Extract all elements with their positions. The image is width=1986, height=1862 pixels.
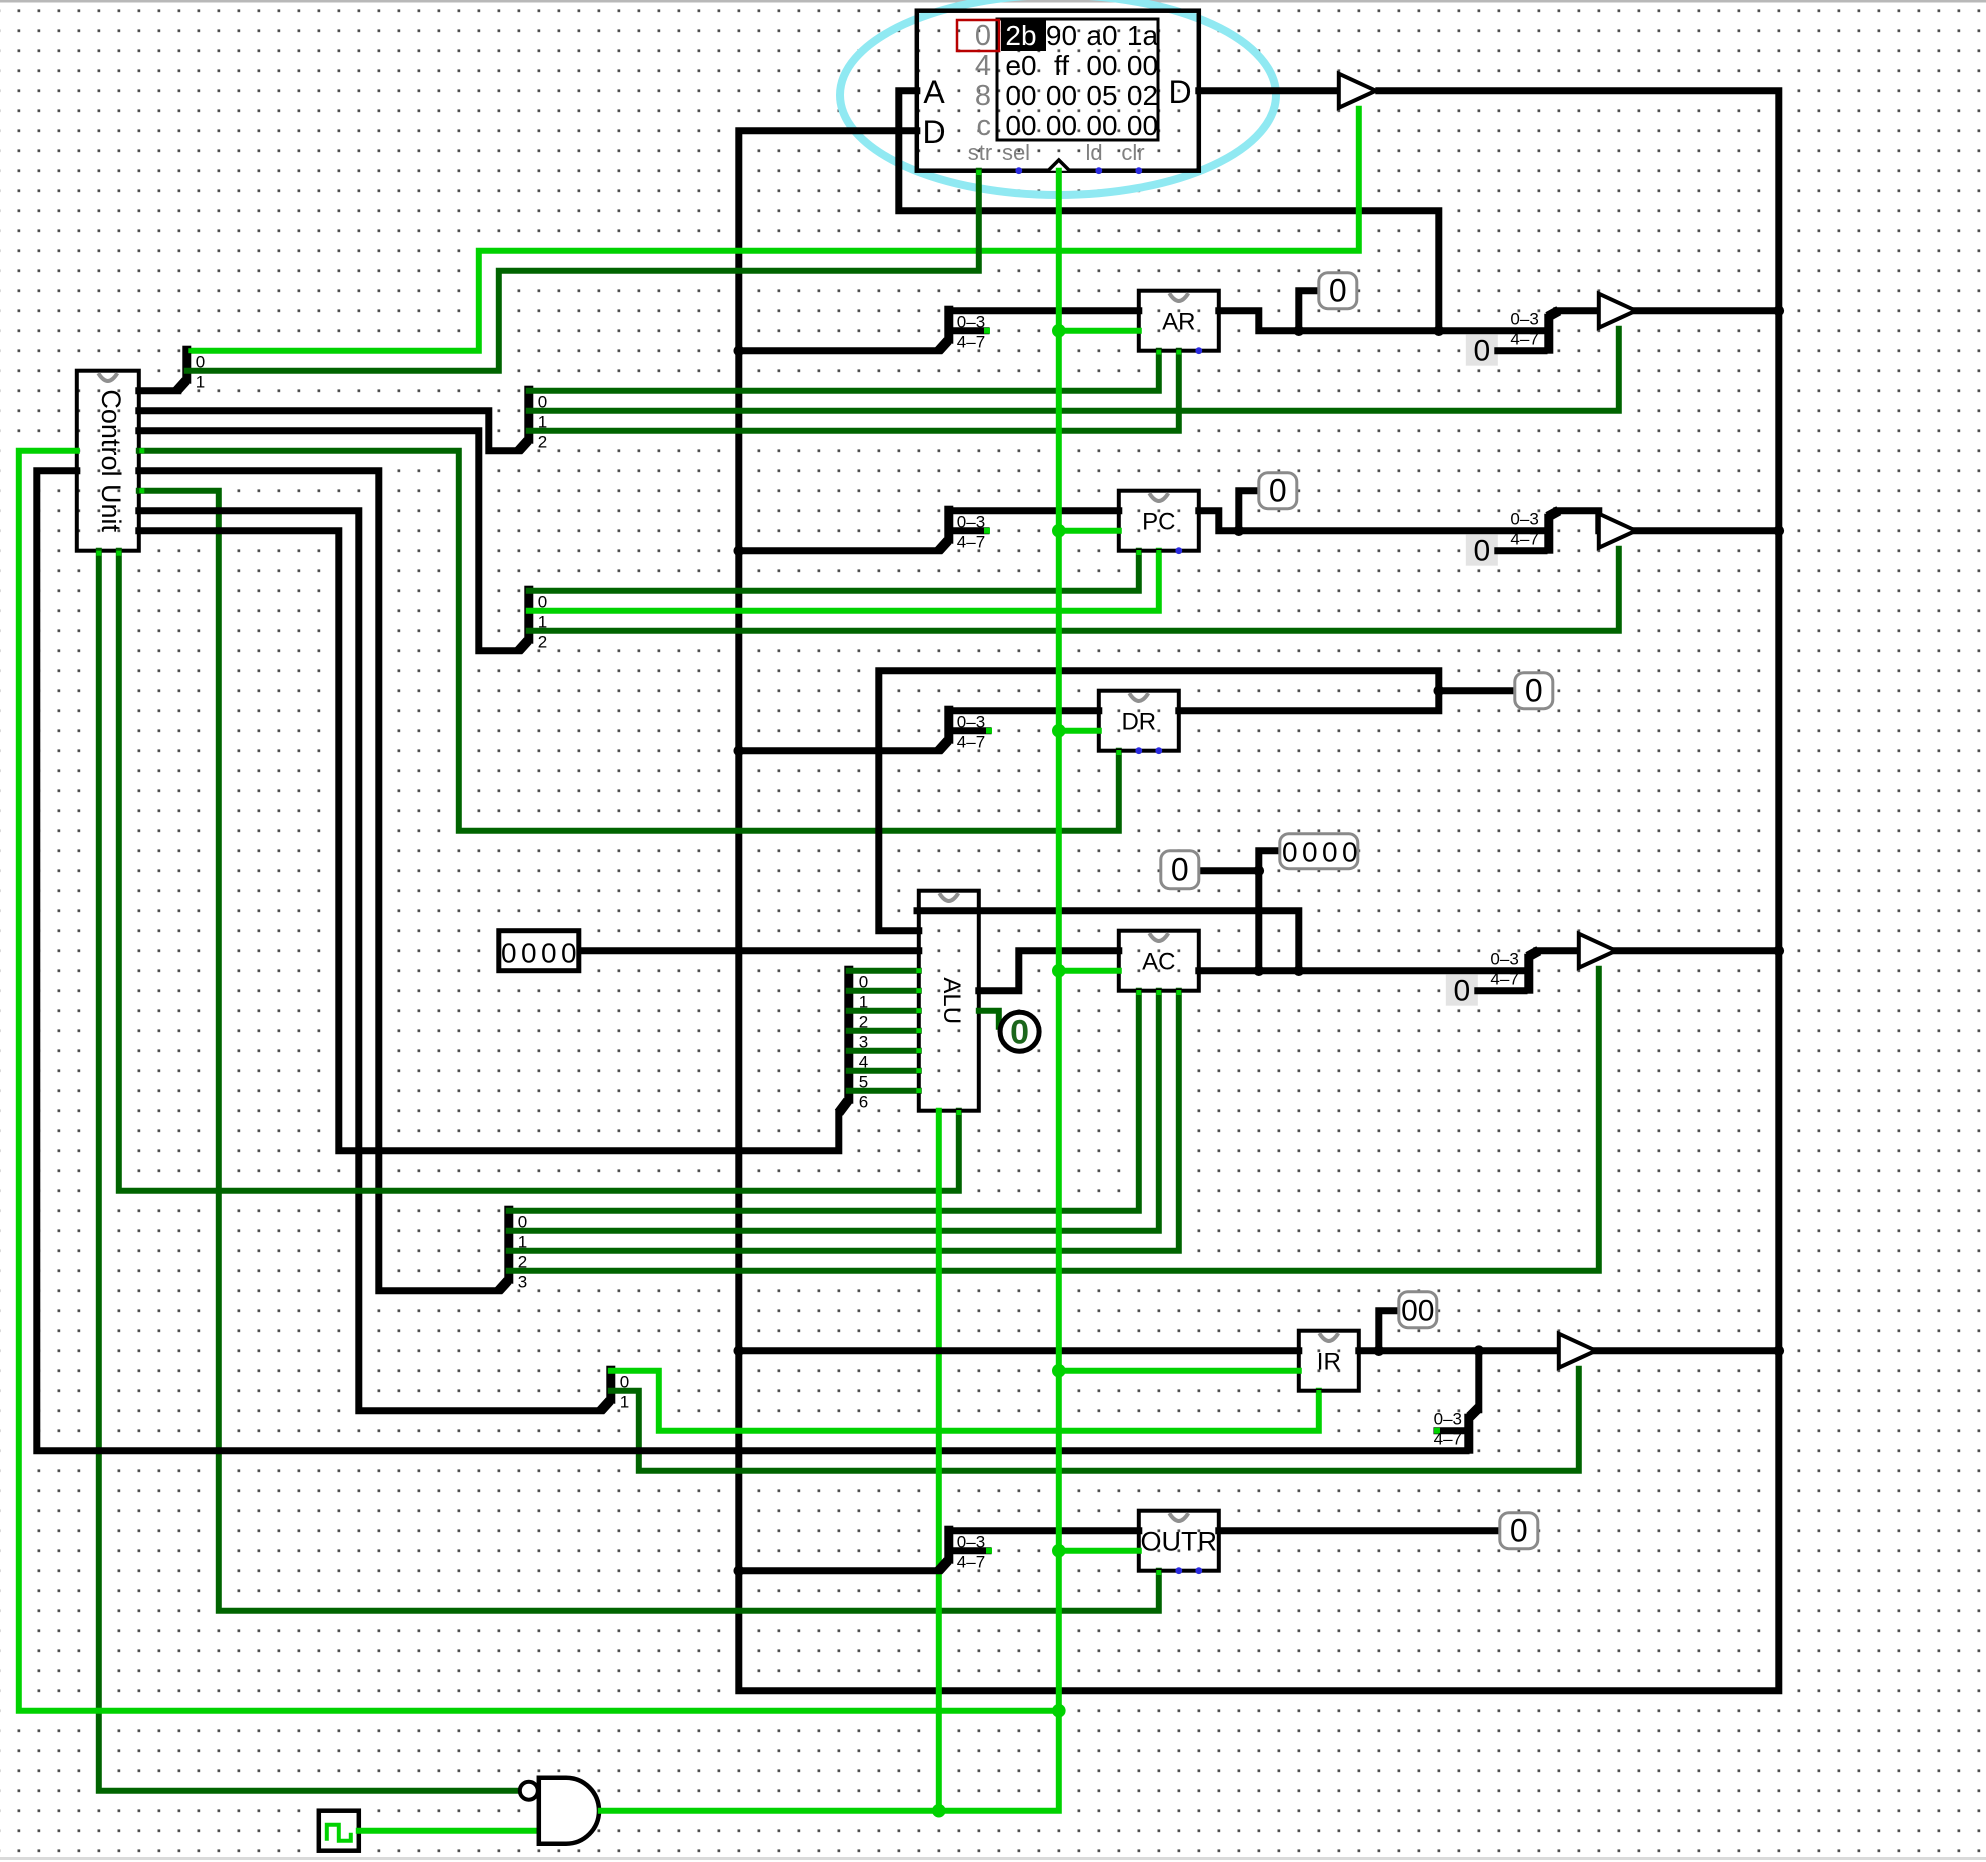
svg-text:0: 0 [1510, 1513, 1528, 1549]
junction IR splitter tee [1474, 1345, 1485, 1356]
OUTR inr pin (floating) [1175, 1567, 1182, 1574]
svg-text:0–3: 0–3 [957, 1533, 985, 1552]
wire AC ld (0) [509, 991, 1139, 1211]
svg-text:00: 00 [1127, 50, 1158, 81]
pin AC value 0 0 0 0 [1280, 834, 1358, 869]
wire OUTR splitter stem [739, 1567, 939, 1574]
NAND gate (AND with inverted input) [520, 1778, 599, 1844]
wire DR out to pin [1439, 687, 1515, 694]
wire ALU result to AC [979, 951, 1119, 991]
wire IR output [1359, 1347, 1559, 1354]
junction clock ALU [932, 1804, 946, 1818]
junction AR out to RAM A [1434, 325, 1445, 336]
junction AC clock [1052, 964, 1066, 978]
svg-text:e0: e0 [1005, 50, 1036, 81]
wire AR inr (0) [529, 351, 1179, 431]
alu U2 [919, 891, 979, 1111]
svg-text:4: 4 [975, 50, 991, 82]
svg-text:00: 00 [1127, 110, 1158, 141]
splitter S3 (3-bit PC ctl) [519, 586, 547, 652]
wire AR buffer enable (0) [529, 329, 1619, 411]
register AC [1119, 931, 1199, 991]
wire ALU ctl bit2 (0) [849, 1008, 919, 1014]
DR clr pin (floating) [1155, 747, 1162, 754]
svg-text:2: 2 [538, 433, 547, 452]
svg-text:00: 00 [1086, 110, 1117, 141]
junction OUTR stem bus [734, 1565, 745, 1576]
wire PC buffer out [1636, 527, 1779, 534]
svg-text:0: 0 [975, 20, 991, 52]
junction PC out pin tee [1234, 525, 1245, 536]
junction AC bus [1774, 945, 1785, 956]
constant 0 for AC high nibble [1446, 975, 1478, 1008]
wire DR D input [949, 707, 1099, 714]
wire AR const to combiner [1498, 347, 1544, 354]
wire CU pin3 to splitter S3 [139, 431, 519, 651]
svg-text:D: D [922, 114, 945, 150]
wire NAND out clock net (1) [601, 171, 1059, 1811]
svg-text:0–3: 0–3 [1510, 510, 1538, 529]
splitter S1 (2-bit RAM ctl) [177, 346, 205, 392]
svg-text:4–7: 4–7 [1510, 530, 1538, 549]
combiner AC [1490, 950, 1538, 994]
svg-text:0–3: 0–3 [957, 713, 985, 732]
pin AR value 0 [1319, 273, 1357, 309]
pin DR value 0 [1515, 673, 1553, 709]
svg-text:clr: clr [1121, 140, 1144, 165]
splitter S4 (4-bit AC ctl) [499, 1206, 527, 1292]
svg-text:0–3: 0–3 [957, 513, 985, 532]
junction IR input bus [734, 1345, 745, 1356]
svg-text:0: 0 [1329, 273, 1347, 309]
wire ALU ctl bit6 (0) [849, 1088, 919, 1094]
svg-text:0: 0 [1322, 837, 1338, 868]
wire ALU ctl bit5 (0) [849, 1068, 919, 1074]
wire AC combiner stem [1537, 947, 1579, 954]
clock component [319, 1811, 359, 1851]
junction AC pin link [1254, 865, 1265, 876]
svg-text:05: 05 [1086, 80, 1117, 111]
svg-text:0: 0 [1171, 852, 1189, 888]
wire CU halt to NAND (0) [99, 551, 517, 1791]
register AR [1139, 291, 1219, 351]
svg-text:DR: DR [1121, 709, 1156, 736]
splitter IR output [1434, 1408, 1479, 1454]
wire CU to ALU flag (0) [119, 551, 959, 1191]
svg-text:1: 1 [620, 1393, 629, 1412]
svg-text:c: c [977, 110, 992, 142]
wire IR ld (1) [611, 1371, 1319, 1431]
svg-text:1a: 1a [1127, 20, 1159, 51]
svg-text:0: 0 [1010, 1014, 1029, 1052]
svg-text:OUTR: OUTR [1141, 1527, 1218, 1557]
wire IR buffer enable (0) [611, 1369, 1579, 1471]
RAM sel pin (floating) [1015, 167, 1022, 174]
junction AC out tee1 [1254, 965, 1265, 976]
svg-text:00: 00 [1046, 80, 1077, 111]
control unit U1 [77, 371, 139, 551]
wire main bus ring (RAM D in, left bus, bottom bus, right bus) [739, 91, 1779, 1691]
wire OUTR D input [949, 1527, 1139, 1534]
wire AC clr (0) [509, 991, 1179, 1251]
svg-text:Control Unit: Control Unit [96, 389, 126, 532]
svg-text:0: 0 [1453, 975, 1470, 1008]
controlled buffer RAM-to-bus [1339, 74, 1376, 108]
splitter DR input [939, 706, 992, 752]
wire IR opcode 4-7 to CU [37, 471, 1466, 1451]
junction AR out pin tee [1294, 325, 1305, 336]
junction IR out pin tee [1374, 1345, 1385, 1356]
svg-text:3: 3 [518, 1273, 527, 1292]
wire CU pin1 to splitter S1 [139, 387, 178, 394]
svg-text:00: 00 [1005, 110, 1036, 141]
svg-text:4–7: 4–7 [957, 533, 985, 552]
wire PC buffer enable (0) [529, 549, 1619, 631]
wire RAM D out to buffer [1199, 87, 1339, 94]
wire OUTR clock tap (1) [1059, 1548, 1139, 1554]
wire ALU ctl bit1 (0) [849, 988, 919, 994]
wire RAM buffer enable (1) [187, 109, 1359, 351]
svg-text:00: 00 [1046, 110, 1077, 141]
svg-text:4–7: 4–7 [957, 733, 985, 752]
wire PC splitter stem [739, 547, 939, 554]
constant 0 for AR high nibble [1466, 335, 1498, 368]
combiner AR [1510, 310, 1558, 354]
RAM ld pin (floating) [1095, 167, 1102, 174]
wire IR D input [739, 1347, 1299, 1354]
svg-text:IR: IR [1317, 1349, 1341, 1376]
junction IR clock [1052, 1364, 1066, 1378]
svg-text:00: 00 [1086, 50, 1117, 81]
splitter S6 (7-bit ALU ctl) [839, 966, 868, 1113]
controlled buffer AR-to-bus [1599, 294, 1636, 328]
wire PC clock tap (1) [1059, 528, 1119, 534]
combiner PC [1510, 510, 1558, 554]
wire S1 leg1 RAM str (0) [187, 171, 979, 371]
wire clock to NAND (1) [359, 1828, 539, 1834]
svg-text:0: 0 [1282, 837, 1298, 868]
svg-text:8: 8 [975, 80, 991, 112]
wire ALU ctl bit0 (0) [849, 968, 919, 974]
pin OUTR value 0 [1500, 1513, 1538, 1549]
wire AC buffer out [1616, 947, 1779, 954]
wire DR output loop to ALU A [879, 671, 1439, 931]
junction AC out tee2 [1294, 965, 1305, 976]
wire AC buffer enable (0) [509, 969, 1599, 1271]
controlled buffer IR-to-bus [1559, 1334, 1596, 1368]
probe carry 0 [1000, 1012, 1039, 1052]
wire IR clock tap (1) [1059, 1368, 1299, 1374]
register OUTR [1139, 1511, 1219, 1571]
splitter S5 (2-bit IR ctl) [601, 1366, 629, 1412]
wire AC out up to 4bit pin [1259, 851, 1280, 971]
svg-text:02: 02 [1127, 80, 1158, 111]
wire AC inr (0) [509, 991, 1159, 1231]
svg-text:a0: a0 [1086, 20, 1117, 51]
svg-text:4–7: 4–7 [957, 333, 985, 352]
svg-text:sel: sel [1002, 140, 1030, 165]
wire PC combiner stem [1557, 511, 1599, 531]
wire PC const to combiner [1498, 547, 1544, 554]
constant 0 for PC high nibble [1466, 535, 1498, 568]
wire DR ld (0) [139, 451, 1119, 831]
wire ALU ctl bit3 (0) [849, 1028, 919, 1034]
splitter OUTR input [939, 1526, 992, 1572]
wire AC output [1199, 967, 1524, 974]
svg-text:0: 0 [501, 938, 517, 969]
junction PC clock [1052, 524, 1066, 538]
svg-text:1: 1 [196, 373, 205, 392]
junction OUTR clock [1052, 1544, 1066, 1558]
controlled buffer AC-to-bus [1579, 934, 1616, 968]
wire OUTR ld (0) [139, 491, 1159, 1611]
pin input 0000 to ALU B [499, 931, 579, 971]
wire DR splitter stem [739, 747, 939, 754]
wire OUTR output [1219, 1527, 1500, 1534]
register DR [1099, 691, 1179, 751]
wire ALU carry to probe (0) [979, 1011, 999, 1027]
wire RAM address loop from AR output [899, 91, 1439, 331]
wire AC pin0 link [1198, 867, 1259, 874]
svg-text:A: A [923, 74, 945, 110]
wire AC const to combiner [1478, 987, 1524, 994]
wire endpoint nubs [96, 170, 1321, 1575]
svg-text:00: 00 [1005, 80, 1036, 111]
wire PC D input [949, 507, 1119, 514]
junction DR clock [1052, 724, 1066, 738]
svg-text:0: 0 [541, 938, 557, 969]
wire AR splitter stem [739, 347, 939, 354]
svg-text:ld: ld [1085, 140, 1102, 165]
splitter AR input [939, 306, 990, 352]
svg-text:2b: 2b [1005, 20, 1036, 51]
svg-text:2: 2 [538, 633, 547, 652]
svg-text:PC: PC [1142, 509, 1175, 536]
register PC [1119, 491, 1199, 551]
wire ALU B input from pin [579, 947, 919, 954]
junction DR out pin tee [1434, 685, 1445, 696]
junction clock CU [1052, 1704, 1066, 1718]
svg-text:D: D [1168, 74, 1191, 110]
svg-text:0: 0 [521, 938, 537, 969]
svg-text:4–7: 4–7 [957, 1553, 985, 1572]
pin PC value 0 [1259, 473, 1297, 509]
wire CU pin7 to splitter S5 [139, 511, 601, 1411]
svg-text:0: 0 [1473, 335, 1490, 368]
controlled buffer PC-to-bus [1599, 514, 1636, 548]
wire CU clock input (1) [19, 451, 1059, 1711]
register IR [1299, 1331, 1359, 1391]
wire ALU ctl bit4 (0) [849, 1048, 919, 1054]
junction PC bus [1774, 525, 1785, 536]
wire AR buffer out [1636, 307, 1779, 314]
wire CU pin2 to splitter S2 [139, 411, 519, 451]
svg-text:AR: AR [1162, 309, 1195, 336]
svg-text:90: 90 [1046, 20, 1077, 51]
RAM clr pin (floating) [1135, 167, 1142, 174]
wire IR buffer out [1596, 1347, 1779, 1354]
svg-text:0: 0 [561, 938, 577, 969]
wire DR clock tap (1) [1059, 728, 1099, 734]
svg-text:6: 6 [859, 1093, 868, 1112]
junction IR bus [1774, 1345, 1785, 1356]
wire AR D input [949, 307, 1139, 314]
svg-text:0–3: 0–3 [1490, 950, 1518, 969]
svg-text:4–7: 4–7 [1434, 1430, 1462, 1449]
RAM 16x8 memory [917, 11, 1199, 171]
wire AR clock tap (1) [1059, 328, 1139, 334]
junction AR clock [1052, 324, 1066, 338]
svg-text:0: 0 [1302, 837, 1318, 868]
wire AR output to pin [1299, 291, 1319, 331]
wire ALU clock (1) [936, 1111, 942, 1811]
svg-text:00: 00 [1401, 1295, 1434, 1328]
junction AR stem bus [734, 345, 745, 356]
svg-text:ff: ff [1054, 50, 1069, 81]
svg-text:str: str [968, 140, 992, 165]
wire AC clock tap (1) [1059, 968, 1119, 974]
wire CU pin5 to splitter S4 [139, 471, 499, 1291]
svg-text:0: 0 [1269, 473, 1287, 509]
junction PC stem bus [734, 545, 745, 556]
svg-text:4–7: 4–7 [1510, 330, 1538, 349]
wire CU pin8 to splitter S6 [139, 531, 839, 1151]
svg-text:AC: AC [1142, 949, 1175, 976]
svg-text:0: 0 [1342, 837, 1358, 868]
svg-text:ALU: ALU [938, 977, 965, 1024]
selection halo around RAM [840, 0, 1276, 195]
splitter S2 (3-bit AR ctl) [519, 386, 547, 452]
wire ALU top out [917, 911, 1299, 971]
junction DR stem bus [734, 745, 745, 756]
junction AR bus [1774, 305, 1785, 316]
wire AR combiner stem [1557, 307, 1599, 314]
svg-text:0: 0 [1473, 535, 1490, 568]
wire IR out to splitter [1475, 1351, 1482, 1410]
wire AR ld (0) [529, 351, 1159, 391]
svg-text:4–7: 4–7 [1490, 970, 1518, 989]
pin IR value 00 [1399, 1292, 1437, 1328]
PC clr pin (floating) [1175, 547, 1182, 554]
wire AR output [1219, 311, 1544, 331]
wire PC output to pin [1239, 491, 1259, 531]
svg-text:0: 0 [1525, 673, 1543, 709]
wire PC ld (0) [529, 551, 1139, 591]
AR clr pin (floating) [1195, 347, 1202, 354]
wire PC inr (1) [529, 551, 1159, 611]
splitter PC input [939, 506, 990, 552]
wire IR out to pin 00 [1379, 1311, 1399, 1351]
pin AC value 0 [1161, 851, 1199, 889]
OUTR clr pin (floating) [1195, 1567, 1202, 1574]
wire PC output [1199, 511, 1544, 531]
DR inr pin (floating) [1135, 747, 1142, 754]
svg-text:0–3: 0–3 [1434, 1410, 1462, 1429]
svg-text:0–3: 0–3 [1510, 310, 1538, 329]
svg-text:0–3: 0–3 [957, 313, 985, 332]
